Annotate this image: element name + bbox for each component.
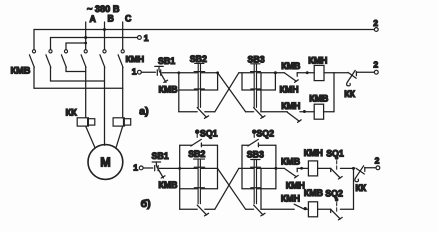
svg-text:SB2: SB2 bbox=[190, 54, 207, 64]
contactor KMB main contact 1 bbox=[29, 30, 35, 89]
svg-text:КМН: КМН bbox=[280, 84, 299, 94]
svg-text:КМВ: КМВ bbox=[11, 66, 31, 76]
svg-text:КМН: КМН bbox=[281, 193, 300, 203]
wire SQ2 loop top row (b) bbox=[242, 144, 276, 146]
contact KMH self-hold tick (a) bbox=[251, 88, 261, 90]
wire row3 to SB3 bottom (a) bbox=[246, 111, 254, 113]
wire row3 node A to SB2 bottom (a) bbox=[179, 111, 197, 113]
contactor KMH main contact 3 bbox=[118, 50, 124, 68]
wire coil KMH to bus (a) bbox=[324, 72, 334, 74]
wire row3 after SB3 (a) bbox=[261, 111, 288, 113]
wire control bus line 2 (to terminal 1) bbox=[51, 37, 138, 39]
wire hold loop KMH left vertical (a) bbox=[241, 73, 243, 90]
svg-text:~ 380 В: ~ 380 В bbox=[87, 4, 120, 14]
svg-text:М: М bbox=[100, 156, 110, 170]
node A junction (b) bbox=[178, 167, 181, 170]
svg-text:SQ1: SQ1 bbox=[326, 148, 344, 158]
wire cross diagonal 1 (b) bbox=[218, 168, 246, 209]
wire cross diagonal 2 (b) bbox=[215, 168, 239, 209]
node terminal 2 top bbox=[374, 28, 378, 32]
svg-text:б): б) bbox=[141, 198, 151, 210]
limit switch SQ1 actuator dot (b) bbox=[335, 156, 339, 160]
wire KMB1 bottom to column C bbox=[34, 87, 123, 89]
pushbutton SB1 stop (b) bbox=[152, 162, 165, 178]
node junction row3 before coil (b) bbox=[304, 207, 307, 210]
wire row1 node A to SB2 (b) bbox=[180, 167, 218, 169]
node junction A-line2 bbox=[84, 36, 87, 39]
wire row1 node A to SB2 (a) bbox=[179, 72, 218, 74]
svg-text:SQ1: SQ1 bbox=[200, 128, 218, 138]
svg-text:SB3: SB3 bbox=[248, 55, 265, 65]
wire KK to terminal 2 (b) bbox=[365, 167, 376, 169]
pushbutton SB1 stop (a) bbox=[155, 66, 168, 82]
contact KMH self-hold tick (b) bbox=[251, 187, 261, 189]
contact KMH NC interlock (b) bbox=[294, 204, 305, 209]
contact KMH NC interlock (a) bbox=[287, 112, 301, 122]
svg-text:SB2: SB2 bbox=[188, 149, 205, 159]
node terminal 2 (b) bbox=[376, 166, 380, 170]
thermal element KK heater 1 bbox=[77, 118, 95, 126]
node terminal 1 top bbox=[138, 36, 142, 40]
limit switch SQ2 actuator dot (b) bbox=[335, 198, 339, 202]
wire row3 to coil KMB (a) bbox=[300, 111, 314, 113]
pushbutton SB3 NC bottom blade (a) bbox=[254, 108, 265, 119]
svg-text:КМН: КМН bbox=[304, 148, 323, 158]
wire SB3 common vertical (b) bbox=[260, 168, 262, 209]
contact KMB self-hold tick (b) bbox=[194, 187, 204, 189]
node junction row1 before coil (b) bbox=[300, 167, 303, 170]
wire control bus line 1 (to terminal 2) bbox=[34, 29, 374, 31]
pushbutton SB2 contact tick row1 (b) bbox=[194, 166, 204, 168]
wire phase B drop bbox=[104, 22, 106, 50]
wire row1 to SB3 (a) bbox=[239, 72, 276, 74]
svg-text:КМВ: КМВ bbox=[309, 93, 328, 103]
wire row3 after SB2 (a) bbox=[205, 111, 215, 113]
wire row1 to KMB interlock (a) bbox=[275, 72, 284, 74]
pushbutton SB3 NC bottom blade (b) bbox=[254, 205, 265, 216]
node terminal 1 (a) bbox=[138, 70, 142, 74]
wire row1 to SB3 (b) bbox=[239, 167, 276, 169]
node terminal 1 (b) bbox=[139, 166, 143, 170]
wire SB1 to node A (a) bbox=[162, 72, 179, 74]
wire row1 to KMB interlock (b) bbox=[276, 167, 284, 169]
wire bus to KK contact (a) bbox=[334, 72, 348, 74]
node junction row1 before coil (a) bbox=[306, 71, 309, 74]
svg-text:2: 2 bbox=[373, 59, 378, 69]
svg-text:В: В bbox=[108, 14, 114, 24]
wire motor column C bbox=[116, 67, 123, 148]
svg-text:2: 2 bbox=[373, 18, 378, 28]
contactor KMH main contact 2 bbox=[100, 50, 106, 68]
wire KMB2 bottom to column B bbox=[51, 80, 105, 82]
wire row3 node A to SB2 bottom (b) bbox=[180, 208, 198, 210]
coil KMB (a) bbox=[314, 104, 323, 119]
svg-text:КМВ: КМВ bbox=[158, 180, 177, 190]
contact SQ1 NO blade (b) bbox=[191, 139, 202, 146]
wire SB1 to node A (b) bbox=[159, 167, 179, 169]
wire node A vertical (b) bbox=[179, 145, 181, 209]
wire hold row KMB (b) bbox=[180, 188, 218, 190]
wire right bus (a) bbox=[333, 73, 335, 112]
svg-text:КМН: КМН bbox=[308, 55, 327, 65]
wire coil KMB to SQ2 (b) bbox=[318, 208, 331, 210]
node terminal 2 (a) bbox=[374, 70, 378, 74]
svg-text:КМВ: КМВ bbox=[159, 84, 178, 94]
pushbutton SB2 contact tick row1 (a) bbox=[194, 71, 204, 73]
coil KMH (a) bbox=[314, 65, 324, 80]
svg-text:SB3: SB3 bbox=[247, 149, 264, 159]
wire terminal 1 to SB1 (b) bbox=[143, 167, 153, 169]
svg-text:КМВ: КМВ bbox=[304, 188, 323, 198]
contactor KMB main contact 2 bbox=[46, 38, 52, 82]
wire KK to terminal 2 (a) bbox=[356, 71, 374, 73]
contact KMB NC interlock (b) bbox=[284, 168, 298, 178]
node junction B-line1 bbox=[103, 28, 106, 31]
svg-text:SB1: SB1 bbox=[158, 56, 175, 66]
motor M bbox=[88, 145, 123, 180]
pushbutton SB3 contact tick row1 (b) bbox=[251, 166, 261, 168]
pushbutton SB2 NC bottom blade (b) bbox=[197, 205, 208, 216]
svg-text:SQ2: SQ2 bbox=[256, 128, 274, 138]
svg-text:SQ2: SQ2 bbox=[325, 189, 343, 199]
wire motor column B bbox=[104, 67, 106, 145]
wire SQ1 to bus (b) bbox=[340, 167, 353, 169]
wire row1 to coil KMH (b) bbox=[297, 167, 308, 169]
wire SQ2 loop right vertical (b) bbox=[275, 145, 277, 189]
limit switch SQ1 NC contact (b) bbox=[331, 161, 343, 179]
pushbutton SB2 stem (b) bbox=[194, 159, 205, 204]
contactor KMH main contact 1 bbox=[81, 50, 87, 68]
coil KMB (b) bbox=[308, 202, 317, 217]
pushbutton SB3 contact tick row1 (a) bbox=[251, 71, 261, 73]
pushbutton SB2 stem (a) bbox=[195, 63, 204, 107]
limit switch SQ1 designator bbox=[195, 130, 199, 138]
svg-text:КМВ: КМВ bbox=[281, 61, 300, 71]
svg-text:КК: КК bbox=[344, 89, 355, 99]
wire cross tap line 3 bbox=[66, 42, 86, 44]
wire node A vertical (a) bbox=[178, 73, 180, 112]
pushbutton SB3 stem (b) bbox=[251, 160, 260, 204]
svg-text:КК: КК bbox=[66, 107, 78, 117]
wire SQ2 loop left vertical (b) bbox=[241, 145, 243, 189]
wire hold row KMH (b) bbox=[242, 188, 276, 190]
pushbutton SB3 stem (a) bbox=[251, 64, 260, 108]
contact KMB self-hold tick (a) bbox=[194, 88, 204, 90]
svg-text:1: 1 bbox=[144, 33, 149, 43]
pushbutton SB2 NC bottom blade (a) bbox=[197, 108, 208, 119]
wire phase A drop bbox=[85, 22, 87, 50]
svg-text:А: А bbox=[90, 14, 97, 24]
svg-text:КМН: КМН bbox=[126, 54, 145, 64]
wire hold row KMH (a) bbox=[242, 89, 275, 91]
coil KMH (b) bbox=[308, 161, 317, 176]
contactor KMB main contact 3 bbox=[61, 43, 67, 72]
wire row1 to coil KMH (a) bbox=[297, 72, 314, 74]
wire row3 to SB3 bottom (b) bbox=[246, 208, 254, 210]
wire terminal 1 to SB1 (a) bbox=[141, 71, 155, 73]
contact KMB NC interlock (a) bbox=[284, 73, 298, 83]
wire right bus (b) bbox=[353, 168, 355, 209]
node junction row3 before coil (a) bbox=[303, 110, 306, 113]
contact SQ2 NO blade (b) bbox=[248, 139, 259, 146]
svg-text:КК: КК bbox=[355, 183, 366, 193]
wire SB3 common vertical (a) bbox=[260, 73, 262, 112]
wire KMB3 bottom to column A bbox=[66, 71, 86, 73]
node A junction (a) bbox=[177, 71, 180, 74]
wire cross diagonal 2 (a) bbox=[215, 73, 239, 112]
node junction row1 right of SB3 (a) bbox=[274, 71, 277, 74]
limit switch SQ2 NC contact (b) bbox=[331, 203, 343, 220]
node junction A-line3 bbox=[84, 42, 87, 45]
wire motor column A bbox=[86, 67, 95, 148]
svg-text:С: С bbox=[125, 14, 132, 24]
contact KK thermal NC (a) bbox=[347, 70, 357, 86]
wire row3 after SB3 (b) bbox=[261, 208, 294, 210]
svg-text:КМН: КМН bbox=[286, 180, 305, 190]
svg-text:а): а) bbox=[139, 106, 148, 118]
wire coil KMB to bus (a) bbox=[324, 111, 334, 113]
wire cross diagonal 1 (a) bbox=[218, 73, 246, 112]
node junction row1 right of SB3 (b) bbox=[274, 167, 277, 170]
wire SQ1 loop top row (b) bbox=[180, 144, 218, 146]
svg-text:2: 2 bbox=[375, 155, 380, 165]
svg-text:1: 1 bbox=[132, 67, 137, 77]
limit switch SQ2 designator bbox=[252, 130, 256, 138]
wire coil KMH to SQ1 (b) bbox=[318, 167, 331, 169]
wire row3 after SB2 (b) bbox=[205, 208, 215, 210]
svg-text:КМВ: КМВ bbox=[281, 156, 300, 166]
thermal element KK heater 2 bbox=[113, 118, 131, 126]
wire SQ2 to bus (b) bbox=[340, 208, 353, 210]
contact KK thermal NC (b) bbox=[355, 166, 365, 182]
wire SQ1 loop right vertical (b) bbox=[217, 145, 219, 189]
node junction row1 right of SB2 (a) bbox=[216, 71, 219, 74]
svg-text:SB1: SB1 bbox=[152, 151, 169, 161]
wire hold loop right vertical SB2 (a) bbox=[217, 73, 219, 90]
wire hold loop right vertical SB3 (a) bbox=[274, 73, 276, 90]
wire hold row KMB (a) bbox=[179, 89, 218, 91]
node junction bus top (b) bbox=[352, 167, 355, 170]
wire row3 to coil KMB (b) bbox=[305, 208, 308, 210]
wire phase C drop bbox=[122, 22, 124, 50]
svg-text:1: 1 bbox=[133, 162, 138, 172]
svg-text:КМН: КМН bbox=[281, 101, 300, 111]
